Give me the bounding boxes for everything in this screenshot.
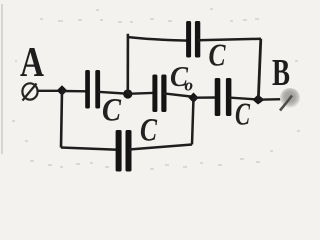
bottom branch right vertical wire bbox=[192, 98, 194, 145]
terminal B (smudged) bbox=[280, 88, 300, 108]
terminal B slash bbox=[280, 96, 292, 111]
paper background bbox=[0, 0, 303, 176]
svg-text:B: B bbox=[272, 52, 290, 94]
svg-text:C: C bbox=[102, 93, 122, 129]
capacitor C4 (bottom) bbox=[116, 130, 132, 172]
capacitor C0 (middle center) bbox=[152, 75, 166, 113]
scan noise speckles bbox=[12, 8, 300, 170]
node n3 junction bbox=[188, 93, 198, 103]
svg-text:C: C bbox=[209, 37, 227, 73]
scan edge artifact left bbox=[1, 4, 3, 154]
capacitor C3 (middle right) bbox=[215, 78, 232, 116]
wire n4 to terminal B bbox=[259, 98, 283, 101]
bottom wire right segment bbox=[129, 145, 192, 150]
wire C0 to node n3 bbox=[163, 93, 195, 97]
wire n2 to C0 bbox=[128, 93, 156, 94]
wire C3 to node n4 bbox=[229, 98, 259, 100]
capacitor C2 (top) bbox=[186, 21, 200, 58]
wire A to node n1 bbox=[38, 90, 63, 92]
bottom wire left segment bbox=[61, 148, 118, 150]
svg-text:C: C bbox=[140, 113, 158, 149]
value label C0 bbox=[170, 61, 193, 95]
node n2 junction bbox=[123, 89, 132, 98]
node n4 junction bbox=[253, 95, 265, 105]
bottom branch left vertical wire bbox=[61, 91, 62, 148]
top wire left segment bbox=[127, 37, 188, 41]
terminal A bbox=[22, 83, 37, 100]
wire n1 to C1 bbox=[62, 90, 87, 93]
capacitor C1 (middle left) bbox=[85, 70, 100, 109]
svg-text:A: A bbox=[20, 40, 45, 86]
wire C1 to node n2 bbox=[98, 92, 129, 94]
top branch left vertical wire bbox=[127, 34, 130, 94]
top wire right segment bbox=[198, 39, 261, 40]
svg-text:C: C bbox=[235, 96, 250, 132]
terminal B inner shade bbox=[284, 92, 294, 102]
svg-text:o: o bbox=[185, 76, 194, 95]
node n1 junction bbox=[57, 85, 68, 96]
wire n3 to C3 bbox=[194, 96, 218, 99]
top branch right vertical wire bbox=[258, 39, 261, 100]
